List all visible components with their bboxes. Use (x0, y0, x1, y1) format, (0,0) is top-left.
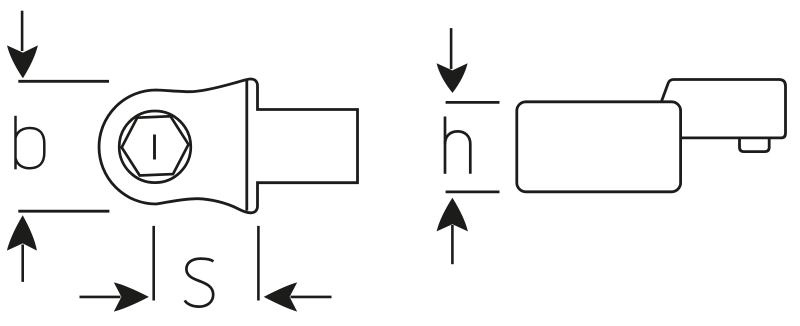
hexagon socket (122, 116, 189, 175)
insert tool side view: drive head (back shape) (661, 80, 786, 138)
dimension b: top dimension line (18, 80, 109, 83)
label h (445, 117, 470, 174)
dimension b: bottom dimension line (18, 210, 109, 213)
dimension b: top arrow stem (21, 11, 24, 51)
label b (16, 116, 45, 170)
dimension h: bottom dimension line (446, 190, 500, 193)
wrench head outline (ring end with bell flare and 9x12 tang, front view) (99, 79, 357, 213)
dimension b: bottom arrowhead (up) (7, 215, 37, 250)
bell flare face edge line (245, 80, 248, 210)
dimension h: top dimension line (446, 101, 500, 104)
dimension S: left extension line (152, 226, 155, 301)
dimension b: bottom arrow stem (21, 245, 24, 282)
label S (185, 259, 214, 307)
square drive peg on drive head (740, 139, 770, 152)
hex bore circle (119, 111, 191, 183)
center mark inside hexagon (153, 135, 156, 160)
dimension h: top arrowhead (down) (437, 63, 468, 93)
dimension S: left arrowhead (right) (114, 282, 149, 311)
dimension h: bottom arrow stem (451, 225, 454, 264)
dimension h: top arrow stem (450, 28, 453, 69)
dimension b: top arrowhead (down) (7, 45, 38, 78)
dimension S: right extension line (257, 226, 260, 301)
insert tool side view: rectangular body (front, occludes drive head) (517, 102, 681, 192)
dimension S: left arrow stem (80, 296, 121, 299)
dimension S: right arrowhead (left) (264, 282, 298, 311)
dimension S: right arrow stem (291, 296, 332, 299)
dimension h: bottom arrowhead (up) (437, 198, 468, 232)
